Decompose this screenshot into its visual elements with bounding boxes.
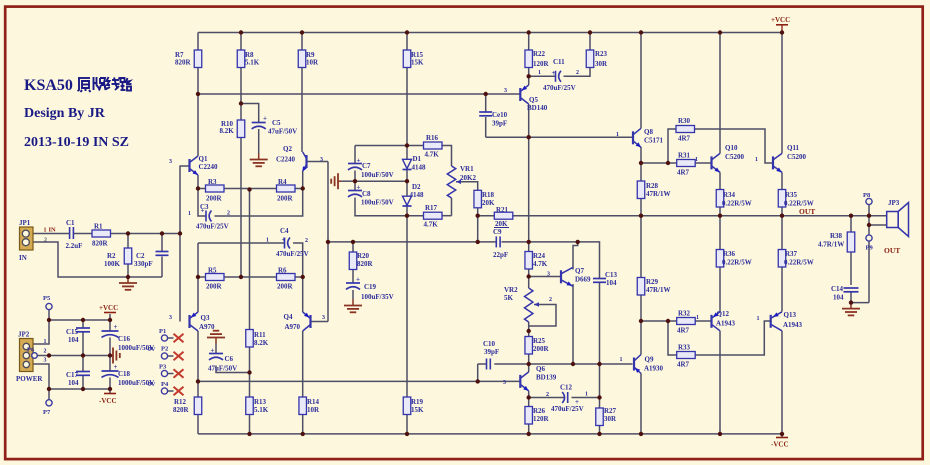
node R18 bus xyxy=(476,240,480,244)
wire diode column down to R19 xyxy=(406,216,408,397)
svg-text:5K: 5K xyxy=(504,294,514,302)
wire C14 node to P9 column xyxy=(851,302,869,304)
svg-text:R4: R4 xyxy=(278,178,287,186)
svg-text:R18: R18 xyxy=(482,191,495,199)
node rail -VCC xyxy=(780,432,784,436)
wire C10 branch xyxy=(477,364,479,381)
wire Ce10 top xyxy=(485,94,487,112)
wire C11 to R23 xyxy=(564,66,591,76)
svg-text:4.7K: 4.7K xyxy=(424,221,439,229)
capacitor C5 xyxy=(252,115,297,136)
resistor R34 xyxy=(716,190,752,208)
wire R31 left lead xyxy=(668,162,677,164)
resistor R22 xyxy=(525,50,550,68)
ground bias mid xyxy=(331,173,341,189)
power symbol +VCC top xyxy=(771,16,790,33)
resistor R1 xyxy=(92,223,111,248)
wire R18 bottom xyxy=(477,208,479,216)
wire Q4 base pin xyxy=(311,321,329,323)
ground under C5 xyxy=(250,154,268,167)
svg-text:3: 3 xyxy=(322,315,325,321)
wire R20 top lead xyxy=(352,242,354,252)
wire Q11 emitter to R35 xyxy=(781,172,783,189)
node rail Q9 xyxy=(639,432,643,436)
svg-text:+: + xyxy=(114,363,118,371)
wire Q8 base row xyxy=(486,136,633,138)
svg-text:3: 3 xyxy=(44,358,47,364)
wire C7-C8 mid xyxy=(354,171,356,191)
wire C5 branch xyxy=(241,104,259,123)
wire R38 to C14 xyxy=(850,252,852,285)
wire R4 to Q2 emitter xyxy=(295,188,303,190)
svg-text:200R: 200R xyxy=(206,283,223,291)
transistor Q13 xyxy=(757,311,803,331)
wire R22 column top xyxy=(528,33,530,51)
wire R3 to R4 xyxy=(224,188,277,190)
wire C18 top lead xyxy=(109,356,111,372)
svg-text:R28: R28 xyxy=(646,182,659,190)
resistor R20 xyxy=(349,252,373,270)
wire C11 row xyxy=(529,75,556,77)
power symbol -VCC bottom xyxy=(771,438,789,449)
svg-text:3: 3 xyxy=(320,157,323,163)
node top bus R22 xyxy=(527,30,531,34)
svg-text:4R7: 4R7 xyxy=(677,361,690,369)
wire R7 bottom to Q1 collector xyxy=(197,68,199,157)
node top bus R15 xyxy=(405,30,409,34)
wire R29 top xyxy=(640,216,642,278)
wire R30 to Q11 base xyxy=(695,129,774,163)
wire input node vertical xyxy=(179,166,181,322)
svg-text:1: 1 xyxy=(585,392,588,398)
wire VR1 bottom lead xyxy=(451,198,453,216)
port P7 xyxy=(43,400,52,416)
svg-text:BD139: BD139 xyxy=(536,374,557,382)
svg-text:P6: P6 xyxy=(27,347,35,354)
port P3 xyxy=(159,364,168,377)
svg-text:R14: R14 xyxy=(307,398,320,406)
resistor R7 xyxy=(175,50,202,68)
node top bus Q8 xyxy=(639,30,643,34)
transistor Q8 xyxy=(616,128,664,147)
wire plus rail xyxy=(49,319,110,321)
svg-text:5.1K: 5.1K xyxy=(254,406,269,414)
wire C18 bottom lead xyxy=(109,378,111,390)
port P8 xyxy=(863,192,872,205)
node top bus Q10 xyxy=(718,30,722,34)
node C17 mid xyxy=(81,353,85,357)
wire R29 bottom to node xyxy=(640,296,642,322)
svg-text:JP1: JP1 xyxy=(19,219,31,227)
wire R3 row xyxy=(198,188,206,190)
node C18 minus xyxy=(108,387,112,391)
svg-text:1: 1 xyxy=(538,70,541,76)
svg-text:104: 104 xyxy=(833,294,844,302)
ground power mid xyxy=(110,348,120,364)
wire VR2 bottom lead xyxy=(528,322,530,337)
svg-text:1: 1 xyxy=(44,228,47,234)
node C6 R11 xyxy=(247,370,251,374)
wire C16 top lead xyxy=(109,320,111,331)
wire Q7 base row xyxy=(529,276,561,278)
node JP2 mid xyxy=(47,353,51,357)
svg-text:KSA50: KSA50 xyxy=(24,77,73,94)
node rail R19 xyxy=(405,432,409,436)
wire C16 bottom lead xyxy=(109,338,111,356)
svg-text:C14: C14 xyxy=(831,285,844,293)
svg-text:C9: C9 xyxy=(493,228,502,236)
resistor R18 xyxy=(474,190,495,208)
svg-text:-VCC: -VCC xyxy=(771,441,789,449)
resistor R17 xyxy=(424,204,443,229)
resistor R11 xyxy=(246,330,269,348)
svg-text:C7: C7 xyxy=(362,162,371,170)
wire R28 bottom xyxy=(640,199,642,216)
capacitor C6 xyxy=(208,347,237,373)
svg-text:OUT: OUT xyxy=(884,246,900,255)
node speaker lower xyxy=(867,223,871,227)
node P5 rail xyxy=(47,318,51,322)
svg-text:1: 1 xyxy=(188,211,191,217)
wire C10 row left xyxy=(478,363,487,365)
svg-text:820R: 820R xyxy=(173,406,190,414)
wire feedback bus left xyxy=(328,241,496,243)
wire input row xyxy=(33,233,70,235)
svg-text:R37: R37 xyxy=(785,250,798,258)
wire Q6 base row xyxy=(478,380,521,382)
svg-text:C18: C18 xyxy=(118,370,131,378)
node top bus R23 xyxy=(588,30,592,34)
wire R7 column top xyxy=(197,33,199,51)
svg-text:C5171: C5171 xyxy=(644,137,664,145)
node R8 R10 C5 xyxy=(239,101,243,105)
svg-text:D669: D669 xyxy=(575,276,591,284)
svg-text:R6: R6 xyxy=(278,267,287,275)
node Q5 collector Q8 xyxy=(527,135,531,139)
resistor R3 xyxy=(206,178,225,203)
resistor R6 xyxy=(277,267,296,291)
wire C4 left corner xyxy=(197,243,199,277)
svg-text:R3: R3 xyxy=(208,178,217,186)
wire R26 bottom xyxy=(528,424,530,434)
svg-text:2: 2 xyxy=(576,70,579,76)
wire R6 right xyxy=(295,276,303,278)
node R2 ground xyxy=(126,275,130,279)
wire VCC+ stem xyxy=(109,314,111,320)
svg-text:470uF/25V: 470uF/25V xyxy=(543,84,576,92)
wire R10 bottom tail xyxy=(240,138,242,278)
svg-text:+: + xyxy=(282,236,286,244)
svg-text:A970: A970 xyxy=(199,323,215,331)
wire R18 node down to bus xyxy=(477,216,479,242)
transistor Q1 xyxy=(169,155,218,175)
wire R15 bottom xyxy=(406,68,408,146)
resistor R14 xyxy=(299,397,320,415)
svg-text:120R: 120R xyxy=(533,415,550,423)
svg-text:10R: 10R xyxy=(306,59,319,67)
transistor Q6 xyxy=(503,365,557,391)
wire P2 stub xyxy=(168,355,174,357)
svg-text:200R: 200R xyxy=(533,345,550,353)
wire Q2 base pin xyxy=(307,161,329,163)
svg-text:+: + xyxy=(552,69,556,77)
connector JP3 speaker xyxy=(884,199,909,255)
capacitor C18 xyxy=(102,363,155,387)
node C12 R27 xyxy=(597,395,601,399)
wire R24 top is on Q5 column xyxy=(528,242,530,252)
svg-text:2013-10-19 IN SZ: 2013-10-19 IN SZ xyxy=(24,135,129,150)
svg-text:R19: R19 xyxy=(411,398,424,406)
svg-text:+: + xyxy=(263,115,267,123)
transistor Q3 xyxy=(169,312,215,331)
wire VCC- stem xyxy=(109,389,111,394)
svg-text:C10: C10 xyxy=(483,340,496,348)
svg-text:C16: C16 xyxy=(118,335,131,343)
wire C13 top lead xyxy=(599,275,601,279)
node OUT speaker xyxy=(867,214,871,218)
node OUT R35 xyxy=(780,214,784,218)
node R3 left xyxy=(196,186,200,190)
node +VCC xyxy=(780,30,784,34)
svg-text:200R: 200R xyxy=(277,195,294,203)
node top bus R9 xyxy=(300,30,304,34)
transistor Q2 xyxy=(276,145,323,172)
svg-text:2: 2 xyxy=(44,238,47,244)
node Q5 collector bus xyxy=(527,240,531,244)
resistor R25 xyxy=(525,337,550,355)
wire C6 stub xyxy=(216,366,250,373)
wire P9 column xyxy=(868,242,870,303)
capacitor C16 xyxy=(102,323,155,352)
svg-text:A1930: A1930 xyxy=(644,365,664,373)
node R2 top xyxy=(126,231,130,235)
wire Q6 emitter node xyxy=(528,391,530,407)
svg-text:Q4: Q4 xyxy=(284,313,293,321)
svg-text:C5200: C5200 xyxy=(725,153,745,161)
wire R35 bottom xyxy=(781,207,783,216)
svg-text:R30: R30 xyxy=(678,117,691,125)
svg-text:R2: R2 xyxy=(107,252,116,260)
svg-text:A970: A970 xyxy=(285,323,301,331)
svg-text:100uF/50V: 100uF/50V xyxy=(361,171,394,179)
ground zobel xyxy=(842,303,860,316)
wire speaker stub upper xyxy=(869,215,887,217)
node OUT R38 xyxy=(849,214,853,218)
svg-text:20K: 20K xyxy=(495,220,508,228)
resistor R15 xyxy=(403,50,424,68)
svg-text:C5: C5 xyxy=(272,119,281,127)
node input tee xyxy=(178,231,182,235)
wire C19 to ground xyxy=(352,290,354,300)
svg-text:+VCC: +VCC xyxy=(771,16,790,24)
wire R19 bottom xyxy=(406,415,408,434)
no-connect X P2 xyxy=(174,352,184,361)
svg-text:P5: P5 xyxy=(43,295,51,302)
node R22 C11 xyxy=(527,74,531,78)
svg-text:820R: 820R xyxy=(175,59,192,67)
wire JP1 pin2 ground path xyxy=(33,242,162,277)
wire R27 bottom xyxy=(599,426,601,434)
svg-text:2.2uF: 2.2uF xyxy=(66,242,83,250)
svg-text:2: 2 xyxy=(305,238,308,244)
ground above C6 xyxy=(207,331,225,344)
wire bias top rail xyxy=(355,145,424,147)
svg-text:Q8: Q8 xyxy=(644,128,653,136)
svg-text:+: + xyxy=(356,276,360,284)
svg-text:1: 1 xyxy=(695,157,698,163)
svg-text:Q9: Q9 xyxy=(645,356,654,364)
node rail R27 xyxy=(597,432,601,436)
svg-text:100uF/50V: 100uF/50V xyxy=(361,199,394,207)
resistor R19 xyxy=(403,397,424,415)
wire C14 bottom xyxy=(850,292,852,303)
svg-text:R36: R36 xyxy=(723,250,736,258)
capacitor C10 xyxy=(483,340,499,370)
svg-text:R16: R16 xyxy=(426,134,439,142)
svg-text:C4: C4 xyxy=(280,227,289,235)
wire -VCC stem at rail end xyxy=(781,434,783,438)
svg-text:R23: R23 xyxy=(595,50,608,58)
svg-text:4148: 4148 xyxy=(412,164,427,172)
capacitor C2 xyxy=(134,252,169,269)
wire R12 bottom xyxy=(197,415,199,434)
node C13 bottom xyxy=(597,362,601,366)
wire C2 bottom lead xyxy=(161,257,163,278)
node R3 R4 mid xyxy=(247,187,251,191)
svg-text:OUT: OUT xyxy=(799,207,815,216)
wire Q8 emitter node row xyxy=(641,162,668,164)
wire R33 left lead xyxy=(668,321,677,355)
node R18 bottom xyxy=(476,214,480,218)
capacitor C3 xyxy=(188,203,230,231)
port P2 xyxy=(161,346,168,360)
svg-text:+VCC: +VCC xyxy=(99,304,118,312)
svg-text:4R7: 4R7 xyxy=(677,327,690,335)
port P9 xyxy=(866,235,874,252)
wire R27 column xyxy=(599,364,601,408)
svg-text:+: + xyxy=(114,323,118,331)
svg-text:C6: C6 xyxy=(225,355,234,363)
capacitor C8 xyxy=(348,184,394,207)
svg-text:R31: R31 xyxy=(678,152,691,160)
wire C13 column to Q6 row xyxy=(599,282,601,364)
node R4 right xyxy=(301,186,305,190)
transistor Q11 xyxy=(755,144,807,172)
wire C3 left lead xyxy=(198,189,206,217)
wire Q6 base long wire xyxy=(198,380,478,382)
svg-text:R17: R17 xyxy=(425,204,438,212)
wire R1 to input node xyxy=(111,233,181,235)
svg-text:Q11: Q11 xyxy=(787,144,800,152)
svg-text:R25: R25 xyxy=(533,337,546,345)
svg-text:5.1K: 5.1K xyxy=(245,59,260,67)
svg-text:R24: R24 xyxy=(533,252,546,260)
svg-text:P8: P8 xyxy=(863,192,871,199)
wire R23 column top xyxy=(589,33,591,51)
svg-text:P3: P3 xyxy=(159,364,167,371)
wire P3 stub xyxy=(168,373,174,375)
capacitor C4 xyxy=(266,227,309,258)
svg-text:C17: C17 xyxy=(66,371,79,379)
svg-text:+: + xyxy=(357,184,361,192)
svg-text:R5: R5 xyxy=(208,267,217,275)
node D2 bottom xyxy=(405,214,409,218)
svg-text:10R: 10R xyxy=(307,406,320,414)
node R30 R31 xyxy=(666,161,670,165)
svg-text:820R: 820R xyxy=(357,260,374,268)
wire D1-D2 mid xyxy=(406,169,408,197)
svg-text:Q3: Q3 xyxy=(201,314,210,322)
potentiometer VR1 xyxy=(447,165,476,198)
port P1 xyxy=(159,328,168,341)
wire R8 bottom xyxy=(240,68,242,121)
wire Q13 collector down xyxy=(781,331,783,434)
svg-text:4R7: 4R7 xyxy=(678,135,691,143)
wire R5 to R6 xyxy=(224,276,277,278)
diode D2 xyxy=(403,183,425,206)
transistor Q12 xyxy=(696,310,736,331)
svg-text:0.22R/5W: 0.22R/5W xyxy=(722,259,752,267)
svg-text:1: 1 xyxy=(616,132,619,138)
svg-text:104: 104 xyxy=(68,379,79,387)
wire R2 bottom lead xyxy=(127,264,129,277)
svg-text:4.7K: 4.7K xyxy=(425,151,440,159)
resistor R32 xyxy=(677,310,696,335)
node top bus R8 xyxy=(239,30,243,34)
resistor R2 xyxy=(104,248,132,268)
wire bottom -VCC rail xyxy=(198,433,782,435)
svg-text:R22: R22 xyxy=(533,50,546,58)
svg-text:200R: 200R xyxy=(206,195,223,203)
capacitor C7 xyxy=(348,157,394,180)
svg-text:1: 1 xyxy=(757,316,760,322)
wire Q12 collector down xyxy=(719,331,721,434)
svg-text:2: 2 xyxy=(44,349,47,355)
svg-text:2: 2 xyxy=(549,297,552,303)
svg-text:20K2: 20K2 xyxy=(460,174,476,182)
wire C6 top to ground xyxy=(215,344,217,354)
svg-text:3: 3 xyxy=(547,272,550,278)
wire JP2 pin1 xyxy=(33,320,49,344)
wire mid rail xyxy=(33,355,108,357)
wire C2 top lead xyxy=(161,234,163,252)
svg-text:30R: 30R xyxy=(604,415,617,423)
wire Q11 collector to bus xyxy=(781,33,783,154)
wire Q1 emitter to R3 xyxy=(197,175,199,189)
wire Q9 node row xyxy=(641,320,668,322)
wire Q10 collector to bus xyxy=(719,33,721,154)
wire R20 to C19 xyxy=(352,270,354,284)
svg-text:0V: 0V xyxy=(148,347,156,353)
no-connect X P4 xyxy=(174,387,184,396)
wire Q5 base from bus xyxy=(512,93,520,95)
node bias top xyxy=(405,143,409,147)
wire speaker stub lower xyxy=(869,216,887,225)
resistor R13 xyxy=(246,397,269,415)
svg-text:1: 1 xyxy=(620,357,623,363)
node rail R26 xyxy=(527,432,531,436)
node C10 base xyxy=(476,379,480,383)
wire R9 column top xyxy=(301,33,303,51)
resistor R26 xyxy=(525,407,550,425)
wire Q4 collector down xyxy=(302,331,304,397)
resistor R38 xyxy=(818,232,855,252)
svg-text:Q10: Q10 xyxy=(725,144,738,152)
svg-text:2: 2 xyxy=(227,211,230,217)
wire Q5 collector down xyxy=(528,104,530,242)
resistor R29 xyxy=(637,278,670,296)
wire C10 row right xyxy=(494,363,528,365)
